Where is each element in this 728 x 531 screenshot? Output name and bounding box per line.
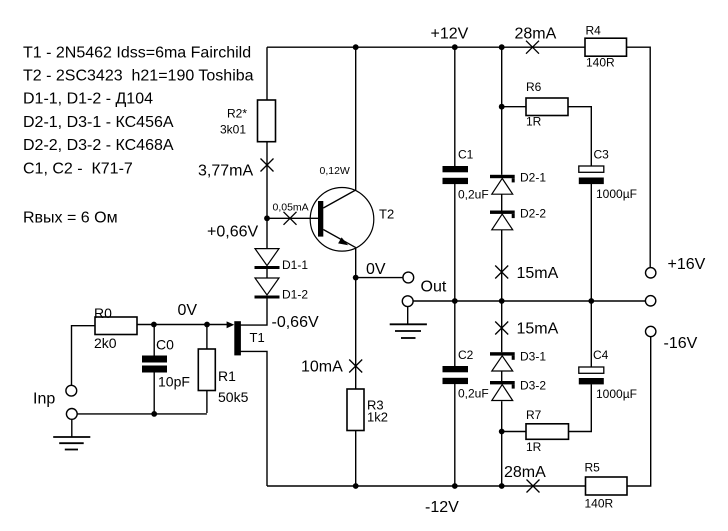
svg-text:D3-1: D3-1 [520,350,546,364]
ground input [53,437,90,450]
wire T2 emitter column down [355,248,357,389]
resistor R5 [586,477,628,495]
svg-text:-0,66V: -0,66V [272,314,319,331]
diode D1-1 [255,249,280,269]
diode D1-2 [255,278,280,299]
svg-text:+12V: +12V [431,26,469,43]
terminal +16V [646,268,656,278]
wire +12V top rail [267,46,585,48]
svg-text:1R: 1R [526,440,542,454]
wire C1 bottom to center [454,184,456,301]
wire R7 node to bottom rail [501,432,503,487]
zener D3-2 [490,381,515,401]
svg-text:-12V: -12V [425,499,459,516]
wire D3-2 to R7 node [501,401,503,431]
wire C0 top [153,325,155,356]
capacitor C4 electrolytic [579,367,604,384]
svg-text:T1: T1 [250,330,265,345]
zener D3-1 [490,352,515,371]
wire D1-1 to D1-2 [266,269,268,278]
svg-text:R6: R6 [526,80,542,94]
capacitor C1 [443,166,469,184]
svg-text:D2-1: D2-1 [520,170,546,184]
svg-text:D2-2: D2-2 [520,207,546,221]
svg-text:15mA: 15mA [517,321,559,338]
svg-text:T2 - 2SC3423 h21=190 Toshiba: T2 - 2SC3423 h21=190 Toshiba [23,68,254,85]
wire center to D3-1 [501,301,503,352]
wire base node to T2 [267,217,318,219]
node top rail T2 [353,44,359,50]
capacitor C0 [142,356,167,373]
svg-text:D1-1: D1-1 [282,258,308,272]
wire R6 right to C3 [568,107,591,166]
svg-text:C4: C4 [593,348,609,362]
svg-text:D2-1, D3-1 - КС456А: D2-1, D3-1 - КС456А [23,114,174,131]
svg-text:140R: 140R [586,56,615,70]
resistor R6 [526,98,568,116]
transistor T1 JFET [227,321,241,355]
wire lower Out to center line [413,300,645,302]
svg-text:1000µF: 1000µF [596,387,637,401]
cross 28mA bottom [527,480,540,493]
wire center to C4 [590,301,592,367]
current cross marks [261,41,540,493]
wire D2-1 to D2-2 [501,194,503,210]
svg-text:R1: R1 [218,368,236,384]
svg-text:D2-2, D3-2 - КС468А: D2-2, D3-2 - КС468А [23,137,174,154]
svg-text:0,12W: 0,12W [320,165,350,177]
resistor R7 [526,424,569,440]
wire C4 bottom to R7 [569,384,592,431]
svg-text:T1 - 2N5462 Idss=6ma Fairchild: T1 - 2N5462 Idss=6ma Fairchild [23,45,251,62]
node R7 tap [499,429,505,435]
wire R0 left to Inp [72,326,96,386]
node center C4 [588,298,594,304]
svg-text:28mA: 28mA [504,464,546,481]
svg-text:T2: T2 [379,207,394,222]
zener D2-2 [490,211,515,230]
node R6 tap [499,104,505,110]
wire bottom rail [267,485,586,487]
node bottom rail C2 [452,483,458,489]
wire node to D1-1 [266,218,268,248]
svg-text:0V: 0V [178,302,198,319]
wire 0V node to Out terminal [356,277,403,279]
zener D2-1 [490,175,515,194]
svg-text:R2*: R2* [227,107,247,121]
svg-text:R0: R0 [94,305,112,321]
wire top rail right of R4 [627,47,651,267]
node top rail D2 [499,44,505,50]
cross 15mA lower [495,322,508,335]
svg-text:1000µF: 1000µF [596,187,637,201]
wire D3-1 to D3-2 [501,371,503,381]
resistor R3 [347,389,364,431]
wire out lower circle to ground [407,307,409,324]
resistor R0 [95,317,137,335]
svg-text:1R: 1R [526,115,542,129]
node center D3 [499,298,505,304]
svg-text:3,77mA: 3,77mA [198,163,253,180]
wire C2 bottom to rail [454,384,456,486]
svg-text:D1-1, D1-2 - Д104: D1-1, D1-2 - Д104 [23,91,153,108]
cross 0,05mA [284,212,297,225]
svg-text:2k0: 2k0 [94,335,117,351]
terminal Out lower [402,296,413,307]
svg-text:1k2: 1k2 [367,410,388,425]
wire T1 source to bottom rail [241,351,268,486]
svg-text:-16V: -16V [664,335,698,352]
capacitor C3 electrolytic [579,166,604,184]
node input ground C0 [151,411,157,417]
svg-text:C1, C2 - К71-7: C1, C2 - К71-7 [23,161,133,178]
svg-text:0,2uF: 0,2uF [458,187,489,201]
wire R2 column top [266,47,268,100]
wire D2/D3 column [501,47,503,175]
ground output [390,324,427,338]
wire D1-2 to T1 drain [241,299,268,326]
svg-text:R5: R5 [585,461,601,475]
node gate R1 [204,322,210,328]
wire R1 top [206,325,208,350]
wire R3 bottom to rail [355,431,357,487]
node top rail C1 [452,44,458,50]
wire R6 left [502,106,526,108]
cross 10mA [349,360,362,373]
wire gate line R0 to T1 [137,324,228,326]
cross 15mA upper [495,266,508,279]
wire R2 bottom to node [266,142,268,219]
svg-text:R7: R7 [526,408,542,422]
svg-text:+0,66V: +0,66V [207,224,258,241]
svg-text:50k5: 50k5 [218,389,249,405]
svg-text:Rвых = 6 Ом: Rвых = 6 Ом [23,210,118,227]
resistor R4 [585,38,627,56]
node base +0,66V [264,215,270,221]
node bottom rail R3 [353,483,359,489]
resistor R2 [258,100,276,142]
capacitor C2 [443,366,469,384]
cross 3,77mA [261,159,274,172]
wire C0 bottom [153,373,155,414]
svg-text:D3-2: D3-2 [520,379,546,393]
svg-text:C3: C3 [594,148,610,162]
svg-text:0,2uF: 0,2uF [458,386,489,400]
svg-text:+16V: +16V [668,256,706,273]
svg-text:C1: C1 [458,148,474,162]
node center C2 [452,298,458,304]
wire C3 bottom to center [590,184,592,301]
transistor T2 [310,188,374,252]
svg-text:C0: C0 [156,337,174,353]
node 0V emitter [353,275,359,281]
resistor R1 [198,349,215,391]
svg-text:140R: 140R [585,497,614,511]
terminal Inp lower [66,409,77,420]
wire C1 column top [454,47,456,166]
svg-text:0,05mA: 0,05mA [273,202,309,214]
svg-text:D1-2: D1-2 [282,288,308,302]
wire input ground line [77,413,207,415]
svg-text:Out: Out [421,279,447,296]
svg-text:28mA: 28mA [515,26,557,43]
terminal Out upper [403,272,414,283]
wire C2 top [454,301,456,366]
wire bottom rail right of R5 [627,337,651,486]
svg-text:10mA: 10mA [301,359,343,376]
svg-text:C2: C2 [458,348,474,362]
svg-text:R4: R4 [586,24,602,38]
cross 28mA top [526,41,539,54]
terminal -16V [646,326,656,336]
node gate C0 [151,322,157,328]
svg-text:10pF: 10pF [158,374,190,390]
svg-text:0V: 0V [366,261,386,278]
wire R7 left [502,431,526,433]
wire inp lower circle to ground [71,419,73,437]
svg-text:3k01: 3k01 [220,123,246,137]
svg-text:Inp: Inp [33,391,55,408]
wire R1 bottom [206,391,208,414]
svg-text:15mA: 15mA [517,265,559,282]
wire D2-2 to center [501,230,503,301]
node bottom rail D3 [499,483,505,489]
wire T2 collector column [355,47,357,190]
terminal Inp upper [66,385,77,396]
terminal mid right [645,296,655,306]
text block [23,45,254,227]
